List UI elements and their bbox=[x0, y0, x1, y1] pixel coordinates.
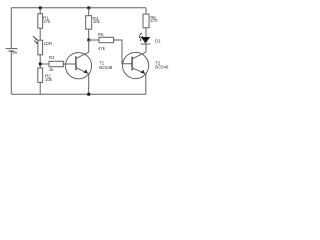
battery BT1 9V bbox=[6, 49, 18, 52]
svg-text:10k: 10k bbox=[93, 19, 101, 24]
resistor R4 bbox=[86, 16, 92, 30]
wire LDR to node A bbox=[39, 55, 41, 68]
wire top rail bbox=[11, 7, 146, 9]
label R4 designator bbox=[93, 16, 99, 21]
node D junction dot (top rail / R1) bbox=[39, 6, 42, 9]
svg-text:47k: 47k bbox=[98, 46, 106, 51]
transistor T2 emitter arrow bbox=[140, 70, 145, 74]
svg-text:9V: 9V bbox=[12, 50, 17, 55]
resistor R6 bbox=[143, 14, 149, 28]
wire T1 emitter to bottom rail bbox=[88, 74, 90, 95]
svg-text:1k: 1k bbox=[49, 67, 54, 72]
label D1 designator bbox=[155, 39, 161, 44]
svg-text:LDR: LDR bbox=[44, 41, 53, 46]
LDR arrows bbox=[33, 36, 37, 43]
label R1 value 47k bbox=[43, 19, 51, 24]
wire R6 to LED D1 bbox=[145, 28, 147, 37]
label R6 designator bbox=[150, 15, 156, 20]
label R4 value 10k bbox=[93, 19, 101, 24]
label T2 value BC548 bbox=[155, 65, 169, 70]
svg-text:D1: D1 bbox=[155, 39, 161, 44]
resistor R1 bbox=[38, 14, 43, 28]
wire top rail to R4 bbox=[88, 8, 90, 16]
transistor T1 emitter arrow bbox=[83, 69, 88, 73]
node E junction dot (top rail / R4) bbox=[87, 6, 90, 9]
label R2 designator bbox=[45, 73, 51, 78]
svg-text:47k: 47k bbox=[43, 19, 51, 24]
label R3 value 1k bbox=[49, 67, 54, 72]
label R2 value 10k bbox=[45, 77, 53, 82]
wire bottom rail bbox=[11, 93, 146, 95]
LED D1 cathode bar bbox=[141, 43, 151, 45]
svg-text:R3: R3 bbox=[49, 55, 55, 60]
svg-text:BC548: BC548 bbox=[99, 65, 113, 70]
wire R4 to node B bbox=[88, 29, 90, 40]
svg-text:10k: 10k bbox=[45, 77, 53, 82]
wire R3 to T1 base bbox=[63, 63, 75, 65]
LED D1 bbox=[141, 37, 150, 44]
node B junction dot bbox=[87, 39, 90, 42]
label R1 designator bbox=[43, 15, 49, 20]
wire top rail corner to R6 bbox=[145, 8, 147, 14]
wire T2 emitter to bottom rail bbox=[145, 74, 147, 94]
label R5 value 47k bbox=[98, 46, 106, 51]
wire node B to R5 bbox=[89, 39, 99, 41]
LED D1 emission arrows bbox=[139, 33, 143, 39]
resistor R3 bbox=[49, 61, 63, 66]
wire node B to T1 collector bbox=[88, 40, 90, 52]
resistor R5 bbox=[99, 37, 114, 42]
node A junction dot bbox=[39, 63, 42, 66]
label T2 designator bbox=[155, 60, 161, 65]
label T1 designator bbox=[99, 60, 105, 65]
label R5 designator bbox=[98, 32, 104, 37]
transistor T1 bbox=[65, 52, 91, 79]
svg-text:470: 470 bbox=[150, 18, 158, 23]
wire left vertical (battery branch bottom) bbox=[10, 51, 12, 94]
resistor R2 bbox=[38, 68, 43, 82]
node C junction dot on bottom rail bbox=[87, 93, 90, 96]
label 9V battery value bbox=[12, 50, 17, 55]
wire node A to R3 bbox=[42, 63, 49, 65]
LDR R7 body bbox=[38, 40, 43, 55]
wire R1 to LDR bbox=[39, 28, 41, 40]
transistor T2 bbox=[123, 52, 149, 78]
svg-text:BC548: BC548 bbox=[155, 65, 169, 70]
label T1 value BC548 bbox=[99, 65, 113, 70]
label LDR bbox=[44, 41, 53, 46]
wire R2 to bottom rail bbox=[39, 82, 41, 94]
wire LED D1 to T2 collector bbox=[145, 44, 147, 52]
wire left vertical (battery branch top) bbox=[10, 8, 12, 49]
label R6 value 470 bbox=[150, 18, 158, 23]
wire R5 to T2 base bbox=[114, 40, 132, 64]
label R3 designator bbox=[49, 55, 55, 60]
wire top rail to R1 bbox=[39, 8, 41, 14]
svg-text:R5: R5 bbox=[98, 32, 104, 37]
